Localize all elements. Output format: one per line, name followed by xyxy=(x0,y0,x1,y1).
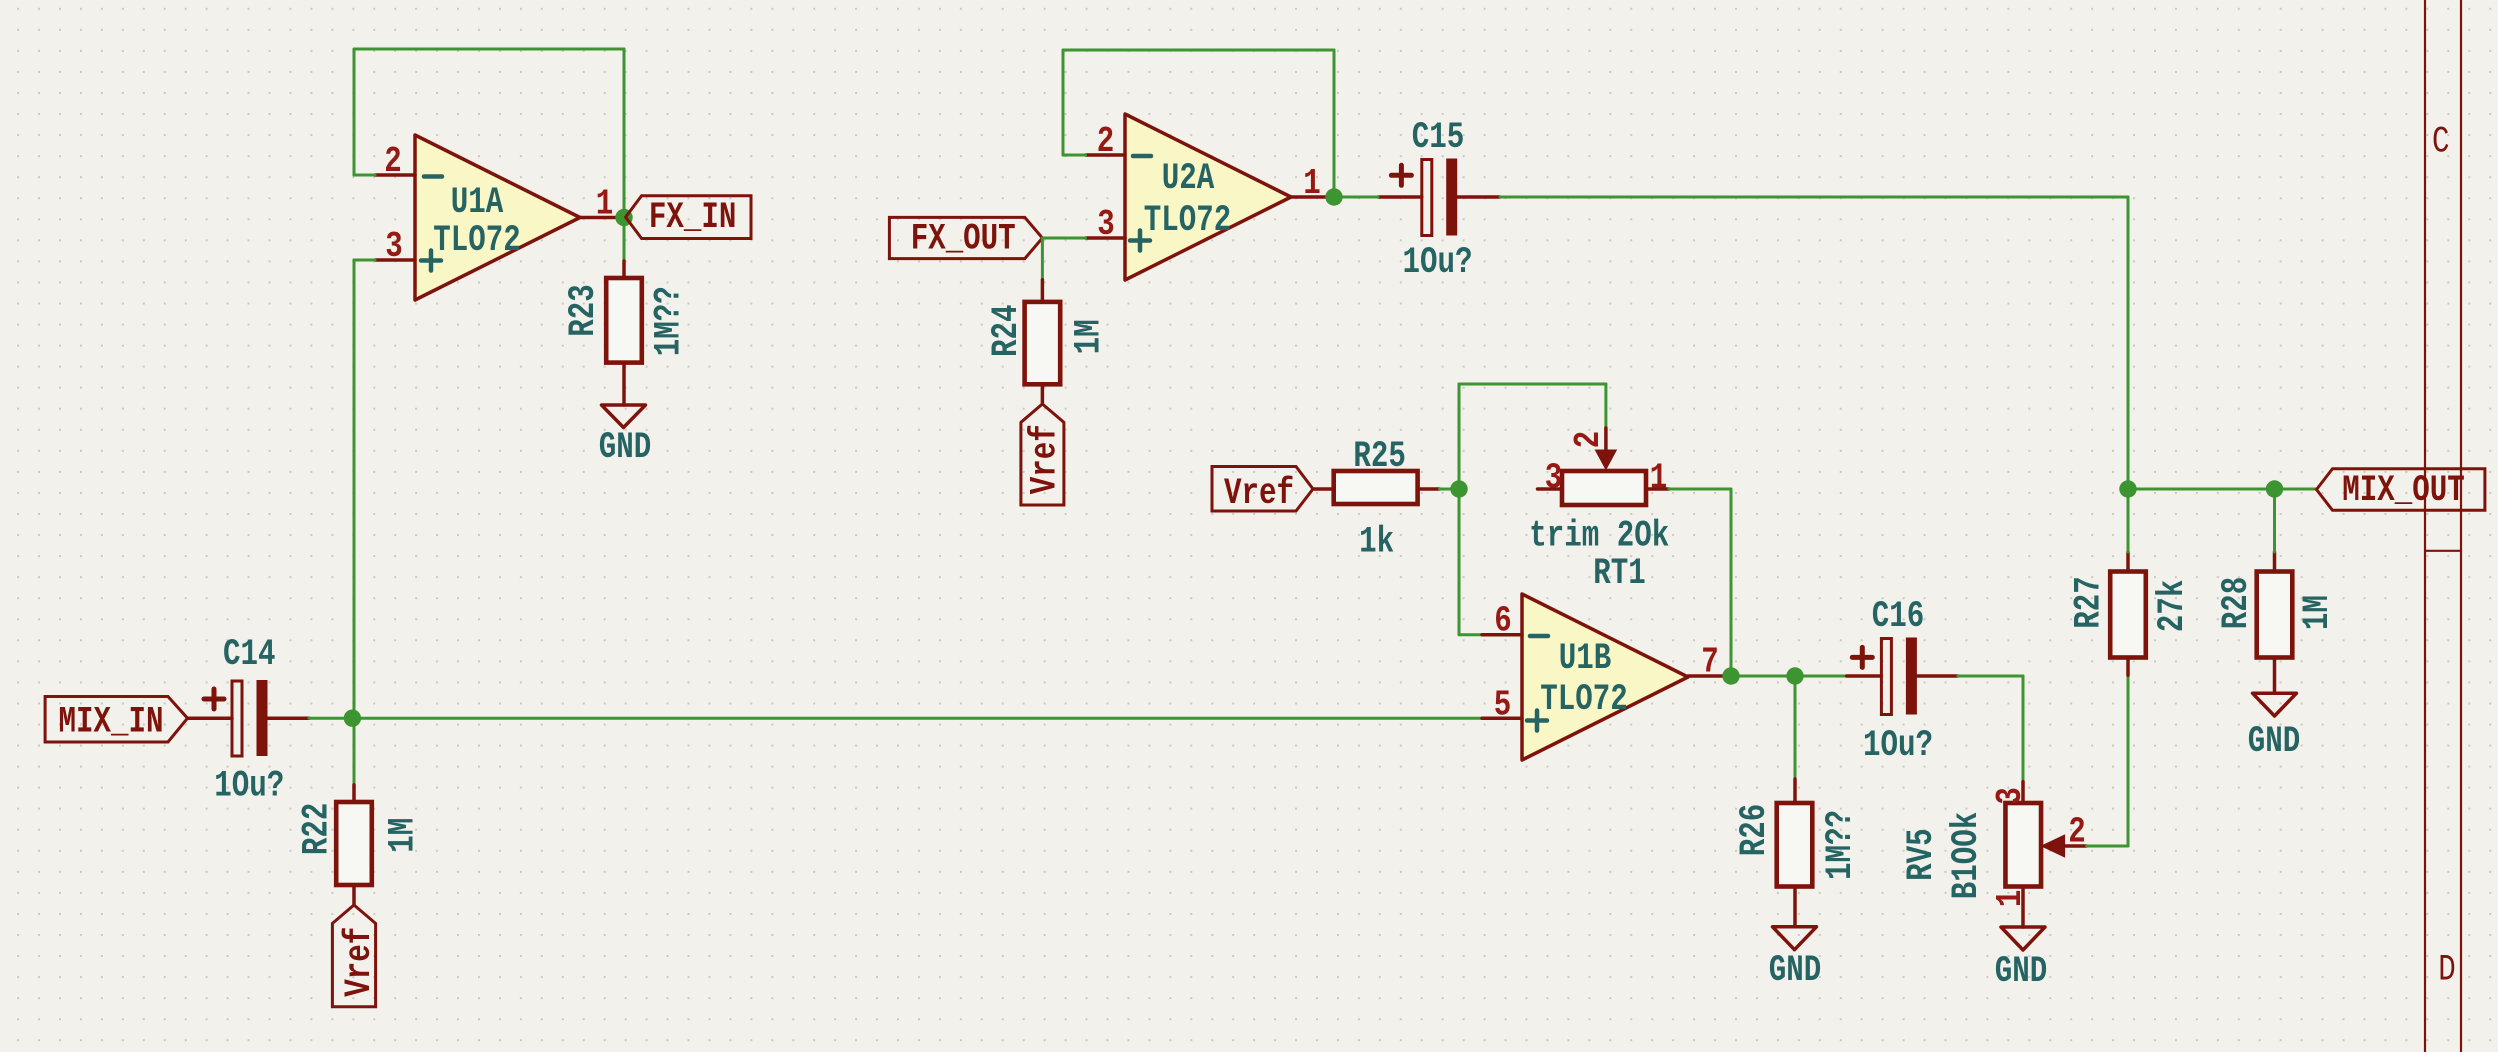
wire xyxy=(2128,488,2317,491)
resistor R23 xyxy=(606,261,642,405)
svg-text:C16: C16 xyxy=(1872,596,1925,638)
svg-text:1M??: 1M?? xyxy=(1820,810,1862,880)
power label Vref at R25 xyxy=(1212,467,1313,516)
svg-text:5: 5 xyxy=(1494,685,1512,726)
svg-text:TLO72: TLO72 xyxy=(1144,200,1232,242)
resistor R25 xyxy=(1313,471,1440,504)
svg-text:C15: C15 xyxy=(1412,117,1465,159)
U1A pin 1 output xyxy=(580,184,620,225)
svg-text:U1B: U1B xyxy=(1559,638,1612,680)
op-amp U1A xyxy=(415,135,580,300)
wire xyxy=(1794,676,1797,779)
svg-text:1M: 1M xyxy=(383,818,425,853)
U1B pin 7 output xyxy=(1688,642,1727,683)
wire xyxy=(354,48,624,51)
wire xyxy=(1063,49,1334,52)
svg-text:2: 2 xyxy=(384,141,402,182)
trimmer potentiometer RT1 xyxy=(1538,428,1670,505)
svg-text:GND: GND xyxy=(1995,951,2048,993)
resistor R22 xyxy=(336,785,372,905)
svg-text:Vref: Vref xyxy=(339,927,381,997)
svg-text:Vref: Vref xyxy=(1224,473,1294,515)
capacitor C14 xyxy=(188,680,310,756)
svg-text:2: 2 xyxy=(1097,121,1115,162)
wire xyxy=(1669,488,1731,491)
junction MIX_IN node xyxy=(344,710,361,727)
wire xyxy=(1458,384,1461,489)
wire xyxy=(353,260,356,718)
ground GND at RV5 xyxy=(2001,927,2045,950)
wire xyxy=(1459,383,1606,386)
svg-text:2: 2 xyxy=(2068,812,2086,853)
svg-text:R23: R23 xyxy=(563,284,605,337)
resistor R24 xyxy=(1025,280,1061,404)
power label Vref below R22 xyxy=(332,905,381,1007)
junction U1B output node xyxy=(1722,667,1739,684)
svg-text:1Ou?: 1Ou? xyxy=(214,766,284,808)
wire xyxy=(1730,489,1733,676)
svg-text:27k: 27k xyxy=(2152,580,2194,633)
capacitor C16 xyxy=(1847,638,1958,715)
svg-text:1: 1 xyxy=(596,184,614,225)
wire xyxy=(2127,675,2130,846)
svg-text:TLO72: TLO72 xyxy=(1540,679,1628,721)
sheet frame border xyxy=(2425,0,2461,1052)
resistor R28 xyxy=(2257,552,2293,693)
svg-text:Vref: Vref xyxy=(1025,424,1067,494)
U1B pin 6 xyxy=(1482,601,1522,642)
svg-text:D: D xyxy=(2438,950,2456,992)
svg-text:3: 3 xyxy=(1990,787,2031,805)
potentiometer RV5 xyxy=(2005,782,2086,928)
svg-text:GND: GND xyxy=(599,427,652,469)
junction C16 R26 node xyxy=(1786,667,1803,684)
power label Vref below R24 xyxy=(1021,404,1067,505)
wire xyxy=(2087,845,2128,848)
wire xyxy=(2127,197,2130,489)
svg-text:1: 1 xyxy=(1303,163,1321,204)
svg-text:B1OOk: B1OOk xyxy=(1946,812,1988,900)
U1A pin 2 xyxy=(375,141,415,182)
hierarchical label MIX_OUT xyxy=(2317,469,2485,512)
svg-text:R25: R25 xyxy=(1353,436,1406,478)
svg-text:FX_IN: FX_IN xyxy=(649,197,737,239)
svg-text:trim 2Ok: trim 2Ok xyxy=(1529,515,1669,557)
svg-text:MIX_IN: MIX_IN xyxy=(59,702,164,744)
ground GND at R23 xyxy=(602,405,646,428)
wire xyxy=(1333,50,1336,197)
wire xyxy=(1958,675,2023,678)
wire xyxy=(1795,675,1847,678)
wire xyxy=(2273,489,2276,552)
wire xyxy=(1063,154,1086,157)
hierarchical label MIX_IN xyxy=(45,697,187,744)
op-amp U2A xyxy=(1125,114,1291,280)
svg-text:R22: R22 xyxy=(297,803,339,856)
svg-text:3: 3 xyxy=(385,226,403,267)
svg-text:RT1: RT1 xyxy=(1593,553,1646,595)
svg-text:U2A: U2A xyxy=(1162,158,1215,200)
ground GND at R28 xyxy=(2253,693,2297,716)
wire xyxy=(1041,238,1044,280)
svg-text:3: 3 xyxy=(1097,204,1115,245)
resistor R27 xyxy=(2110,552,2146,675)
svg-text:MIX_OUT: MIX_OUT xyxy=(2342,470,2465,512)
wire xyxy=(1062,50,1065,155)
capacitor C15 xyxy=(1378,159,1500,236)
wire xyxy=(354,259,375,262)
svg-text:1M??: 1M?? xyxy=(648,286,690,356)
svg-text:U1A: U1A xyxy=(451,182,504,224)
wire xyxy=(354,174,375,177)
svg-text:FX_OUT: FX_OUT xyxy=(911,219,1016,261)
svg-text:2: 2 xyxy=(1568,431,1609,449)
hierarchical label FX_OUT xyxy=(889,217,1042,260)
wire xyxy=(352,717,1482,720)
wire xyxy=(1604,384,1607,428)
wire xyxy=(353,718,356,785)
svg-text:1M: 1M xyxy=(1069,319,1111,354)
svg-text:R28: R28 xyxy=(2216,577,2258,630)
wire xyxy=(623,49,626,218)
svg-text:GND: GND xyxy=(2248,721,2301,763)
svg-text:R27: R27 xyxy=(2069,576,2111,629)
svg-text:1Ou?: 1Ou? xyxy=(1403,242,1473,284)
svg-text:6: 6 xyxy=(1494,601,1512,642)
svg-text:R24: R24 xyxy=(986,304,1028,357)
svg-text:1M: 1M xyxy=(2297,595,2339,630)
junction R25 RT1 node xyxy=(1450,480,1467,497)
svg-text:3: 3 xyxy=(1545,458,1563,499)
U2A pin 2 xyxy=(1086,121,1125,162)
U1B pin 5 xyxy=(1482,685,1522,726)
svg-text:1Ou?: 1Ou? xyxy=(1863,725,1933,767)
junction R28 node xyxy=(2266,480,2283,497)
op-amp U1B xyxy=(1522,594,1688,760)
svg-text:C14: C14 xyxy=(223,634,276,676)
svg-text:GND: GND xyxy=(1769,950,1822,992)
wire xyxy=(623,218,626,262)
U2A pin 1 output xyxy=(1291,163,1330,204)
wire xyxy=(1440,488,1460,491)
svg-text:1k: 1k xyxy=(1359,522,1394,564)
wire xyxy=(353,49,356,175)
svg-text:RV5: RV5 xyxy=(1901,828,1943,881)
svg-text:C: C xyxy=(2432,121,2450,163)
svg-text:R26: R26 xyxy=(1734,804,1776,857)
junction U1A output node xyxy=(615,209,632,226)
ground GND at R26 xyxy=(1773,927,1817,950)
wire xyxy=(1500,196,2128,199)
svg-text:7: 7 xyxy=(1701,642,1719,683)
wire xyxy=(1731,675,1795,678)
wire xyxy=(1458,489,1461,635)
wire xyxy=(2022,676,2025,782)
svg-text:1: 1 xyxy=(1990,890,2031,908)
wire xyxy=(2127,489,2130,552)
junction U2A output node xyxy=(1325,188,1342,205)
svg-text:TLO72: TLO72 xyxy=(433,220,521,262)
wire xyxy=(309,717,352,720)
resistor R26 xyxy=(1777,779,1813,927)
U1A pin 3 xyxy=(375,226,415,267)
svg-text:1: 1 xyxy=(1650,458,1668,499)
U2A pin 3 xyxy=(1086,204,1125,245)
wire xyxy=(1334,196,1378,199)
wire xyxy=(1042,237,1085,240)
wire xyxy=(1459,633,1482,636)
junction R27 node xyxy=(2119,480,2136,497)
hierarchical label FX_IN xyxy=(626,196,751,239)
